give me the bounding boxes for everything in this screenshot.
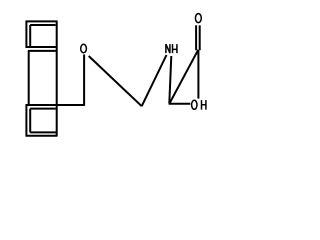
atom label NH: letter N [166, 44, 170, 53]
benzene ring cross bond at y51 [28, 50, 58, 52]
benzene ring lower-left double bond inner line [29, 109, 31, 133]
atom label OH: letter O [192, 100, 197, 109]
wire: CH2 to NH diagonal bond [142, 55, 167, 106]
benzene ring upper-left double bond inner line [29, 25, 31, 47]
benzene ring lower cross double bond inner line [30, 108, 56, 110]
benzene ring bottom outer edge [26, 135, 58, 137]
atom label carbonyl O [195, 14, 201, 23]
benzene ring top edge [26, 20, 58, 22]
benzene ring top edge double bond inner line [30, 24, 55, 26]
benzene ring lower-left outer edge [25, 104, 27, 136]
benzene ring upper-left outer edge [25, 21, 27, 48]
atom label OH: letter H [202, 100, 206, 110]
atom label NH: letter H [173, 44, 177, 53]
wire: NH to alpha C steep bond [169, 56, 171, 103]
benzene ring right vertical bond [56, 21, 58, 135]
wire: alpha C to carbonyl C diagonal bond [169, 50, 198, 104]
benzene ring bottom edge double bond inner line [30, 131, 56, 133]
wire: benzyl CH2 to ether O vertical bond [83, 55, 85, 106]
wire: ether O to CH2 diagonal bond [89, 56, 142, 106]
benzene ring cross bond at y47 [26, 46, 58, 48]
carbonyl C=O double bond right line [199, 25, 201, 50]
carbonyl C=O double bond left line [195, 25, 197, 50]
wire: carbonyl C to hydroxyl O vertical bond [197, 50, 199, 99]
wire: alpha C to OH horizontal bond [169, 103, 191, 105]
benzene ring lower cross bond joined with bond to benzyl CH2 [26, 104, 85, 106]
benzene ring middle-left vertical bond [28, 51, 30, 105]
atom label ether O [81, 44, 87, 53]
